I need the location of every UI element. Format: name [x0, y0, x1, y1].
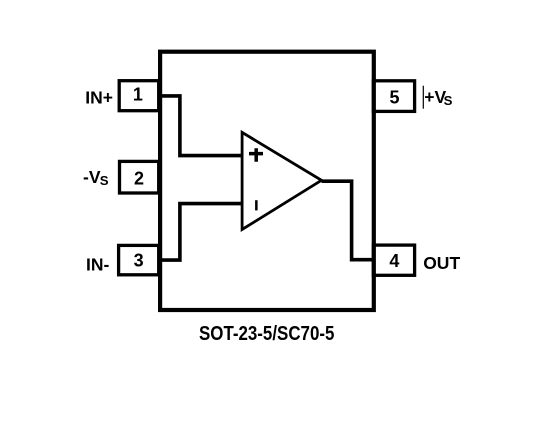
svg-text:5: 5 [389, 87, 399, 107]
svg-text:SOT-23-5/SC70-5: SOT-23-5/SC70-5 [199, 322, 334, 345]
svg-text:1: 1 [133, 84, 143, 104]
wire pin 1 to op-amp + input [159, 96, 242, 156]
op-amp U1 triangle [242, 132, 321, 229]
stray vertical tick before +Vs [422, 86, 424, 109]
pin 4 box [373, 245, 414, 275]
wire op-amp output to pin 4 [322, 181, 375, 260]
svg-text:4: 4 [389, 251, 399, 271]
svg-text:3: 3 [134, 251, 144, 271]
svg-text:S: S [444, 93, 453, 108]
op-amp inverting input marker (vertical bar) [255, 200, 258, 210]
pin 2 box [120, 161, 159, 193]
pin 5 box [373, 81, 414, 112]
op-amp noninverting input marker (+) [249, 148, 263, 161]
svg-text:2: 2 [134, 168, 144, 188]
pin 3 box [119, 245, 159, 274]
svg-text:-V: -V [83, 167, 101, 187]
IC body package outline [160, 52, 374, 310]
svg-text:OUT: OUT [423, 253, 460, 273]
svg-text:IN+: IN+ [85, 87, 113, 107]
svg-text:IN-: IN- [86, 254, 110, 274]
pin 1 box [119, 81, 159, 111]
svg-text:S: S [100, 173, 109, 188]
wire pin 3 to op-amp - input [159, 204, 242, 261]
